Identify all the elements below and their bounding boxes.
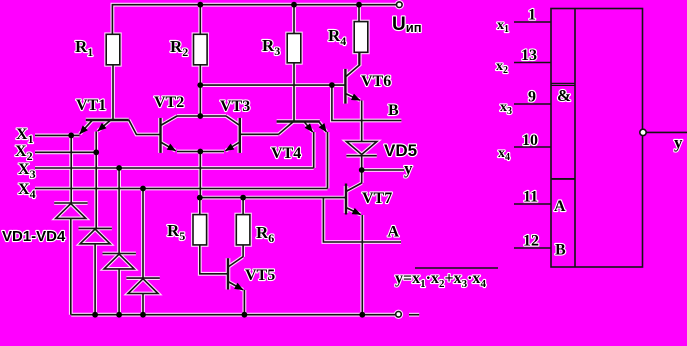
pin 13 wire <box>514 62 551 64</box>
svg-text:1: 1 <box>528 7 536 24</box>
svg-text:X3: X3 <box>18 161 36 181</box>
svg-text:12: 12 <box>523 233 539 250</box>
resistor R6 <box>236 198 250 257</box>
wire: VT7 base rail <box>200 197 346 199</box>
svg-text:VT2: VT2 <box>154 94 184 111</box>
wire: VT1 emitter2 drop to X2 <box>95 132 97 153</box>
junction: X1 / VD1 <box>68 133 74 139</box>
wire: stub right of ground terminal <box>409 314 419 316</box>
logic gate symbol U1 <box>514 9 687 268</box>
junction: R2 / VT6 base wire <box>197 82 203 88</box>
junction: R5 top <box>197 195 203 201</box>
svg-text:R6: R6 <box>256 223 274 245</box>
pin 10 wire <box>514 146 551 148</box>
svg-text:y: y <box>674 133 683 152</box>
junction: node B riser <box>329 82 335 88</box>
svg-text:x3: x3 <box>500 100 512 117</box>
pin 9 wire <box>514 103 551 105</box>
wire: VT4 emitter2 drop to X4 line <box>327 132 329 189</box>
pin 11 wire <box>514 203 551 205</box>
svg-text:x2: x2 <box>496 59 508 76</box>
transistor VT6 <box>345 52 361 141</box>
transistor VT3 <box>226 116 240 153</box>
junction: VT5 emitter / ground <box>242 312 248 318</box>
formula y = not(x1*x2+x3*x4) <box>395 268 498 290</box>
svg-text:R3: R3 <box>262 36 280 58</box>
wire: VT3 base to VT4 collector <box>240 133 279 135</box>
wire: input X2 line <box>35 151 96 153</box>
junction: X4 / VD4 <box>140 186 146 192</box>
svg-text:R2: R2 <box>170 37 188 59</box>
pin 1 wire <box>514 21 551 23</box>
wire: X3 drop to VD3 <box>118 168 120 254</box>
junction: VD2 / ground <box>92 312 98 318</box>
junction: top rail / R3 <box>291 2 297 8</box>
transistor VT1 (multi-emitter) <box>80 120 161 135</box>
junction: top rail / R4 <box>356 2 362 8</box>
svg-text:VT6: VT6 <box>361 73 391 90</box>
svg-text:10: 10 <box>522 132 538 149</box>
wire: X2 drop to VD2 <box>95 152 97 228</box>
svg-text:VT4: VT4 <box>271 145 301 162</box>
svg-text:VT1: VT1 <box>76 97 106 114</box>
diode VD2 <box>79 228 112 314</box>
junction: top rail / R2 <box>197 2 203 8</box>
wire: input X3 line <box>35 167 314 169</box>
wire: +U power rail <box>112 5 396 35</box>
svg-text:y=x1·x2+x3·x4: y=x1·x2+x3·x4 <box>395 270 486 290</box>
svg-text:9: 9 <box>528 89 536 106</box>
transistor VT5 <box>228 257 244 315</box>
transistor VT2 <box>161 116 178 153</box>
terminal 0V (ground) <box>396 312 402 318</box>
wire: splitter common emitter (hexagon bottom) <box>177 151 224 153</box>
svg-text:X4: X4 <box>18 181 36 201</box>
junction: VD3 / ground <box>116 312 122 318</box>
svg-text:VD1-VD4: VD1-VD4 <box>2 228 66 245</box>
resistor R4 <box>354 5 368 65</box>
svg-text:&: & <box>557 86 571 105</box>
inversion bubble <box>640 129 646 135</box>
wire: node A stub <box>323 198 401 242</box>
svg-text:x4: x4 <box>498 146 510 163</box>
resistor R2 <box>194 5 208 116</box>
svg-text:A: A <box>388 224 400 241</box>
resistor R3 <box>287 5 301 122</box>
wire: input X4 line <box>35 188 328 190</box>
svg-text:VT5: VT5 <box>245 267 275 284</box>
diode VD1 <box>54 203 87 315</box>
gate body <box>551 9 643 268</box>
svg-text:R4: R4 <box>328 26 346 48</box>
svg-text:11: 11 <box>523 189 538 206</box>
diode VD5 <box>346 142 376 171</box>
wire: X4 drop to VD4 <box>142 189 144 279</box>
diode VD3 <box>103 254 136 315</box>
wire: ground rail <box>71 314 396 316</box>
transistor VT4 (multi-emitter) <box>277 122 327 135</box>
svg-text:Uип: Uип <box>392 14 422 35</box>
gate inner field divider <box>574 9 576 268</box>
junction: VD4 / ground <box>140 312 146 318</box>
junction: R6 top <box>240 195 246 201</box>
svg-text:y: y <box>404 159 413 178</box>
wire: node B stub <box>332 85 402 120</box>
wire: output y node <box>362 169 404 171</box>
gate section divider 1 (double groove) <box>551 83 575 85</box>
wire: VT4 emitter1 drop to X3 line <box>313 132 315 168</box>
svg-text:B: B <box>555 242 566 259</box>
wire halo underlay <box>35 2 419 317</box>
gate section divider 2 <box>551 178 575 180</box>
wire: splitter collector node to VT6 base <box>200 84 345 86</box>
wire: X1 drop to VD1 <box>70 135 72 203</box>
wire: input X1 line <box>35 134 80 136</box>
junction: splitter collectors <box>197 113 203 119</box>
svg-text:R5: R5 <box>167 221 185 243</box>
resistor R1 <box>106 34 120 120</box>
svg-text:VT3: VT3 <box>220 98 250 115</box>
junction: X3 / VD3 <box>116 165 122 171</box>
junction: X2 / VD2 <box>93 149 99 155</box>
svg-text:x1: x1 <box>497 18 509 35</box>
transistor VT7 <box>346 170 362 315</box>
junction: VT7 emitter / ground <box>359 312 365 318</box>
svg-text:B: B <box>388 102 399 119</box>
svg-text:X2: X2 <box>15 143 33 163</box>
wire: splitter emitters down to R5/R6 node <box>199 152 201 198</box>
svg-text:13: 13 <box>521 47 537 64</box>
junction: output y node <box>359 167 365 173</box>
junction: splitter emitters <box>197 149 203 155</box>
svg-text:VT7: VT7 <box>362 190 392 207</box>
svg-text:VD5: VD5 <box>384 141 417 160</box>
output y wire <box>646 131 687 133</box>
diode VD4 <box>126 278 159 315</box>
terminal Uip (power) <box>397 2 403 8</box>
svg-text:R1: R1 <box>75 37 93 59</box>
resistor R5 <box>193 198 228 274</box>
wire: splitter common collector (hexagon top) <box>177 115 226 117</box>
svg-text:A: A <box>554 198 566 215</box>
pin 12 wire <box>514 247 551 249</box>
